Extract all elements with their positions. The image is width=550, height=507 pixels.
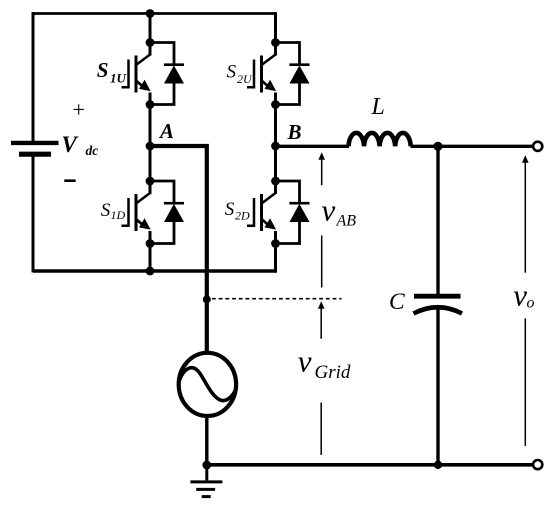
svg-text:S: S xyxy=(225,199,235,220)
diode D1D xyxy=(150,181,184,244)
battery V_dc xyxy=(11,143,59,154)
svg-text:C: C xyxy=(389,289,405,315)
node C bottom junction xyxy=(434,461,442,469)
ground xyxy=(190,465,222,497)
svg-text:v: v xyxy=(322,192,336,227)
label minus xyxy=(64,179,75,182)
node A xyxy=(146,142,155,151)
svg-text:Grid: Grid xyxy=(315,362,351,383)
node top rail / leg1 junction xyxy=(146,9,155,18)
node B xyxy=(271,142,280,151)
node S1D collector junction xyxy=(146,177,155,186)
capacitor C xyxy=(414,296,463,313)
svg-text:V: V xyxy=(62,132,79,157)
svg-text:1D: 1D xyxy=(111,208,126,222)
wire grid to ground xyxy=(205,416,208,465)
svg-text:2U: 2U xyxy=(237,72,253,86)
svg-text:o: o xyxy=(527,294,535,311)
node ground junction xyxy=(202,461,211,470)
diode D2D xyxy=(276,181,310,244)
wire left DC bus lower xyxy=(32,156,35,272)
wire leg2 top xyxy=(274,12,277,55)
svg-text:2D: 2D xyxy=(235,209,250,223)
svg-text:+: + xyxy=(73,97,85,122)
node S1U emitter junction xyxy=(146,100,155,109)
svg-text:AB: AB xyxy=(336,212,357,229)
svg-text:dc: dc xyxy=(86,143,99,158)
wire C top xyxy=(436,146,439,294)
svg-text:S: S xyxy=(97,58,109,82)
transistor S1U xyxy=(122,55,151,93)
arrow vo xyxy=(522,155,529,446)
transistor S2D xyxy=(247,193,276,231)
wire leg1 top xyxy=(149,14,152,56)
wire node A to grid xyxy=(150,146,207,351)
svg-text:A: A xyxy=(158,119,174,143)
node S2D emitter junction xyxy=(271,239,280,248)
svg-text:v: v xyxy=(298,344,312,379)
wire leg1 bottom xyxy=(149,231,152,273)
wire dashed vAB reference xyxy=(212,298,342,300)
node leg1 / bottom rail junction xyxy=(146,267,155,276)
svg-text:B: B xyxy=(287,120,302,144)
arrow vAB xyxy=(318,152,325,287)
wire C bottom xyxy=(436,309,439,466)
diode D1U xyxy=(150,43,184,105)
svg-text:S: S xyxy=(227,62,237,83)
node S2D collector junction xyxy=(271,177,280,186)
node L-C junction xyxy=(433,142,442,151)
diode D2U xyxy=(276,43,310,105)
node S2U emitter junction xyxy=(271,100,280,109)
svg-text:1U: 1U xyxy=(110,71,127,86)
svg-text:v: v xyxy=(513,277,527,312)
terminal output top xyxy=(533,142,542,151)
node S2U collector junction xyxy=(271,38,280,47)
node S1U collector junction xyxy=(146,38,155,47)
wire leg2 middle xyxy=(274,93,277,195)
wire top rail xyxy=(33,12,276,15)
wire leg2 bottom xyxy=(274,231,277,273)
AC source Vgrid xyxy=(179,353,237,416)
transistor S2U xyxy=(247,55,276,93)
terminal output bottom xyxy=(533,460,542,469)
node S1D emitter junction xyxy=(146,239,155,248)
wire bottom rail xyxy=(33,269,276,272)
wire B to inductor xyxy=(276,145,350,148)
wire L to output top xyxy=(411,145,533,148)
transistor S1D xyxy=(122,193,151,231)
arrow vGrid xyxy=(318,301,325,455)
svg-text:S: S xyxy=(101,200,111,221)
wire left DC bus upper xyxy=(32,12,35,141)
wire leg1 middle xyxy=(149,93,152,195)
node grid tap junction xyxy=(203,295,211,303)
svg-text:L: L xyxy=(371,94,385,120)
inductor L xyxy=(349,133,411,146)
wire bottom output xyxy=(207,463,533,467)
